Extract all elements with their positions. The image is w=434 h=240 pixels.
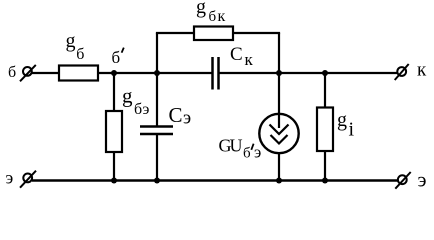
terminal к (collector, top-right): circle with slash bbox=[395, 64, 409, 80]
svg-text:C: C bbox=[169, 103, 183, 127]
junction dot: g_i branch on top wire bbox=[322, 70, 328, 76]
svg-text:б: б bbox=[112, 48, 121, 67]
svg-text:э: э bbox=[183, 108, 191, 129]
svg-text:g: g bbox=[337, 109, 347, 131]
wire: б' branch down to resistor g_бэ bbox=[113, 73, 115, 111]
junction dot rail/g_i bbox=[322, 178, 328, 184]
svg-text:б: б bbox=[8, 64, 16, 81]
junction dot rail/Cэ bbox=[154, 178, 160, 184]
terminal э (emitter, bottom-left): circle with slash bbox=[20, 171, 36, 188]
wire: Cэ branch down from top wire bbox=[156, 73, 158, 127]
capacitor Cк (series plates in top wire) bbox=[213, 57, 219, 90]
wire: current source branch upper vertical bbox=[278, 73, 280, 114]
svg-text:б: б bbox=[134, 101, 142, 118]
junction dot: feedback/current-source branch on top wire bbox=[276, 70, 282, 76]
wire: feedback branch left vertical (up from node at x=157) bbox=[156, 33, 158, 73]
terminal б (base, top-left): circle with slash bbox=[20, 65, 36, 81]
wire: current source lower vertical bbox=[278, 153, 280, 180]
resistor g_б (box) bbox=[59, 66, 98, 81]
svg-text:g: g bbox=[122, 83, 133, 107]
wire: feedback top horizontal right segment bbox=[233, 32, 280, 34]
wire: feedback top horizontal left segment bbox=[156, 32, 194, 34]
wire: feedback branch right vertical (down to top wire) bbox=[278, 33, 280, 73]
svg-text:э: э bbox=[143, 101, 150, 118]
resistor g_i (box) bbox=[317, 108, 333, 152]
svg-text:к: к bbox=[218, 8, 226, 25]
current source GU_б'э (circle with double chevron arrow) bbox=[259, 114, 298, 153]
wire: bottom rail bbox=[32, 179, 398, 182]
wire: g_i to bottom rail bbox=[324, 151, 326, 181]
svg-text:к: к bbox=[417, 60, 427, 81]
svg-text:э: э bbox=[254, 143, 261, 162]
svg-text:б: б bbox=[76, 46, 84, 63]
svg-text:б: б bbox=[243, 146, 251, 162]
wire: capacitor Cк to terminal к bbox=[220, 72, 398, 74]
svg-text:C: C bbox=[230, 44, 243, 65]
junction dot rail/g_бэ bbox=[111, 178, 117, 184]
svg-text:U: U bbox=[230, 136, 243, 156]
svg-text:g: g bbox=[196, 0, 206, 18]
svg-text:g: g bbox=[66, 30, 76, 52]
wire: Cэ to bottom rail bbox=[156, 134, 158, 181]
resistor g_бэ (box) bbox=[106, 111, 122, 152]
wire: resistor g_бэ down to bottom rail bbox=[113, 152, 115, 181]
wire: g_i branch upper vertical bbox=[324, 73, 326, 108]
capacitor Cэ (horizontal plates) bbox=[140, 127, 173, 135]
svg-text:i: i bbox=[349, 119, 355, 141]
junction dot at top of Cэ branch bbox=[154, 70, 160, 76]
svg-text:э: э bbox=[6, 168, 14, 188]
svg-text:к: к bbox=[245, 50, 254, 69]
resistor g_бк (box) bbox=[194, 27, 233, 41]
svg-text:э: э bbox=[418, 168, 427, 192]
junction dot rail/current source bbox=[276, 178, 282, 184]
svg-text:б: б bbox=[209, 9, 217, 25]
wire: terminal б to resistor g_б bbox=[32, 72, 60, 74]
terminal э (emitter, bottom-right): circle with slash bbox=[395, 172, 410, 189]
node б' junction dot bbox=[111, 70, 117, 76]
wire: resistor g_б to node б' and on to capacitor Cк bbox=[98, 72, 212, 74]
